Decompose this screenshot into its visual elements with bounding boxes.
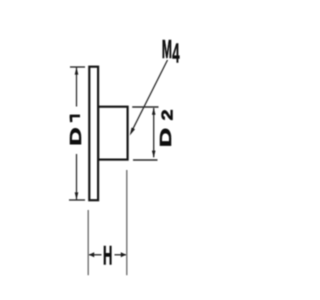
svg-text:D: D [68,127,85,145]
H right extension line [126,170,128,275]
D2 dimension line [153,108,155,157]
D1 top arrowhead [75,67,79,74]
D1 dimension line upper segment [76,68,78,107]
D2 bottom arrowhead [152,151,156,158]
D1 bottom extension tick [69,199,85,201]
hub rectangle (boss, dimension D2) [98,107,128,160]
flange rectangle (side view of disc, dimension D1) [89,67,98,201]
H left extension line [87,210,89,275]
D2 top arrowhead [152,108,156,115]
H dimension line right segment [115,254,127,256]
D1 dimension line lower segment [76,154,78,200]
svg-text:D: D [157,128,175,147]
H left arrowhead [89,252,94,257]
svg-text:H: H [103,241,112,270]
D1 top extension tick [70,66,85,68]
D2 top extension tick [132,106,158,108]
D1 label: glyph 1 (rotated, drawn as shapes: stem bar + flag) [70,115,80,123]
H dimension line left segment [89,254,102,256]
M4 leader arrowhead [130,128,135,136]
D2 bottom extension tick [133,159,158,161]
svg-text:2: 2 [158,109,176,120]
D1 bottom arrowhead [75,192,79,199]
svg-text:4: 4 [172,37,180,69]
H right arrowhead [121,252,126,257]
svg-text:M: M [162,36,172,64]
M4 leader line [131,60,167,132]
